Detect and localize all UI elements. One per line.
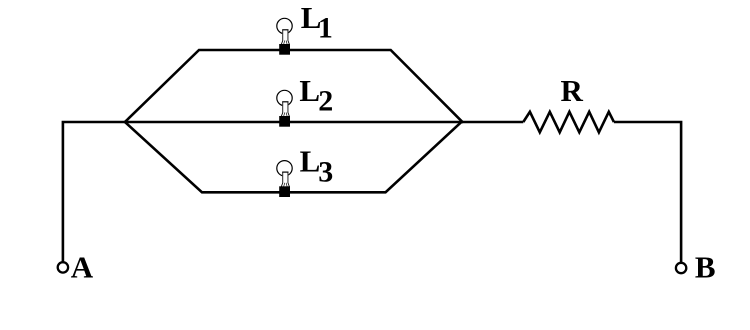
svg-text:A: A [71, 250, 94, 285]
terminal B [676, 263, 686, 273]
wire terminal A riser to left node [63, 122, 125, 262]
wire right node to resistor [462, 121, 523, 124]
lamp L1 [277, 18, 292, 54]
svg-text:L: L [299, 73, 320, 108]
wire resistor to terminal B [614, 122, 681, 262]
svg-text:3: 3 [318, 156, 333, 189]
svg-text:R: R [561, 73, 584, 108]
svg-text:L: L [300, 144, 321, 179]
terminal A [58, 262, 68, 272]
node: right junction [461, 121, 464, 124]
wire middle branch through L2 [125, 121, 462, 124]
svg-text:1: 1 [318, 12, 333, 45]
node: left junction [124, 121, 127, 124]
svg-text:B: B [695, 250, 716, 285]
lamp L3 [277, 161, 292, 197]
label L2 [299, 73, 333, 118]
svg-text:2: 2 [318, 84, 333, 117]
lamp L2 [277, 90, 292, 126]
label L3 [300, 144, 334, 189]
wire top branch through L1 [124, 50, 463, 123]
resistor R [523, 112, 614, 133]
wire bottom branch through L3 [124, 121, 462, 192]
label L1 [301, 0, 333, 45]
